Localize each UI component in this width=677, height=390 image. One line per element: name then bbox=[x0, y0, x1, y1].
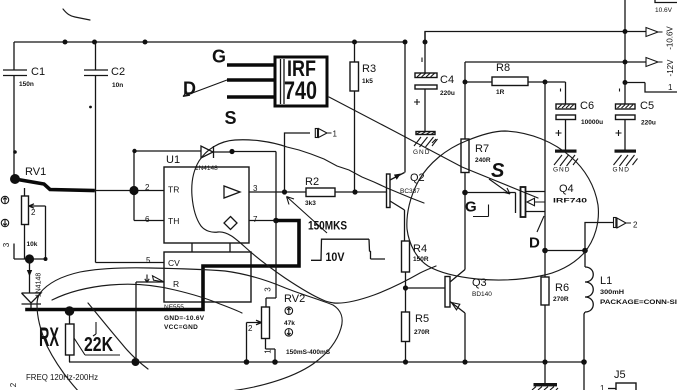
node dot on rail bbox=[63, 40, 68, 45]
svg-text:150MKS: 150MKS bbox=[308, 219, 347, 233]
resistor R6 bbox=[541, 251, 569, 363]
svg-text:C6: C6 bbox=[580, 100, 594, 112]
svg-text:10n: 10n bbox=[112, 82, 123, 89]
svg-text:TH: TH bbox=[168, 216, 179, 226]
ground bottom center bbox=[532, 362, 558, 390]
svg-text:1: 1 bbox=[600, 384, 605, 390]
node dot gate net bbox=[462, 190, 468, 196]
svg-text:G: G bbox=[212, 47, 226, 67]
voltage box 10.6V top corner bbox=[655, 0, 677, 14]
svg-text:R5: R5 bbox=[415, 313, 429, 325]
svg-text:2: 2 bbox=[9, 382, 18, 387]
node dot R8 right (S net) bbox=[543, 80, 548, 85]
adjust circle down RV2 bbox=[285, 329, 293, 337]
capacitor C4 bbox=[414, 32, 455, 132]
resistor RX (hand drawn) bbox=[66, 315, 75, 362]
connector J5 bbox=[600, 369, 636, 390]
svg-text:FREQ 120Hz-200Hz: FREQ 120Hz-200Hz bbox=[26, 373, 98, 382]
svg-text:6: 6 bbox=[145, 215, 150, 224]
node dot RV1 top bbox=[10, 174, 20, 184]
svg-text:R8: R8 bbox=[496, 62, 510, 74]
wire Q2 emitter riser bbox=[404, 42, 406, 173]
svg-text:3: 3 bbox=[2, 242, 11, 247]
potentiometer RV1 bbox=[2, 166, 46, 259]
capacitor C5 bbox=[616, 83, 656, 150]
wire pin4 reset bbox=[136, 282, 164, 362]
svg-text:S: S bbox=[225, 108, 237, 128]
svg-text:1: 1 bbox=[668, 83, 673, 92]
annotation inner arc bbox=[52, 284, 242, 313]
inductor L1 bbox=[584, 251, 677, 363]
wire S net trunk to Q4 source bbox=[544, 82, 546, 192]
svg-text:GND: GND bbox=[613, 167, 630, 174]
svg-text:L1: L1 bbox=[600, 275, 612, 287]
annotation D label bbox=[529, 216, 544, 252]
stray dot bbox=[89, 106, 92, 109]
svg-text:10.6V: 10.6V bbox=[655, 7, 673, 14]
svg-text:BD140: BD140 bbox=[472, 291, 492, 298]
arrow to D lead bbox=[183, 80, 227, 97]
svg-text:1k5: 1k5 bbox=[362, 78, 373, 85]
IRF740 package box bbox=[275, 56, 327, 106]
node dot on rail bbox=[143, 40, 148, 45]
resistor R5 bbox=[402, 288, 430, 362]
svg-text:CV: CV bbox=[168, 258, 180, 268]
svg-text:47k: 47k bbox=[284, 320, 295, 327]
svg-text:2: 2 bbox=[31, 208, 36, 217]
svg-text:10k: 10k bbox=[27, 241, 38, 248]
wire top-right riser bbox=[624, 0, 626, 83]
node dot Q2/rail bbox=[403, 40, 408, 45]
annotation loop around U1 bbox=[192, 140, 424, 303]
diode D2 1N4148 bbox=[22, 259, 43, 308]
transistor Q2 BC337 bbox=[387, 172, 425, 241]
node dot R2/R3 bbox=[352, 189, 357, 194]
svg-text:-12V: -12V bbox=[666, 59, 675, 77]
wire L1 to bottom edge bbox=[583, 362, 585, 390]
resistor R3 bbox=[350, 42, 376, 192]
node dot C2/rail bbox=[92, 40, 97, 45]
wire jog to edge port 1 bbox=[625, 83, 677, 93]
svg-text:Q4: Q4 bbox=[559, 183, 574, 195]
wire to port 2 bbox=[585, 223, 614, 251]
svg-text:VCC=GND: VCC=GND bbox=[164, 324, 198, 331]
svg-text:C4: C4 bbox=[440, 74, 454, 86]
annotation pointer to 22K bbox=[74, 338, 120, 355]
IRF740 package leads bbox=[227, 65, 276, 97]
svg-text:J5: J5 bbox=[614, 369, 626, 381]
capacitor C6 bbox=[556, 89, 604, 150]
pin4 arrow glyph bbox=[145, 275, 149, 283]
node dot L1 top bbox=[582, 248, 588, 254]
node dot Q3/rail bbox=[462, 359, 467, 364]
wire pin5 CV label bbox=[0, 0, 1, 1]
node dot RV2 pin1/rail bbox=[272, 359, 278, 365]
node dot R3/rail bbox=[352, 40, 357, 45]
annotation inner arc 2 bbox=[88, 303, 148, 369]
svg-text:2: 2 bbox=[633, 221, 638, 230]
adjust circle up RV2 bbox=[285, 307, 293, 315]
annotation blob around RX bbox=[37, 268, 342, 390]
node dot RV1 bottom bbox=[25, 254, 34, 263]
svg-text:RV2: RV2 bbox=[284, 293, 305, 305]
svg-text:1N4148: 1N4148 bbox=[195, 165, 218, 172]
node dot drain bbox=[542, 248, 548, 254]
node dot pin4/rail bbox=[132, 358, 140, 366]
node dot riser/-10.6V rail bbox=[623, 29, 628, 34]
wire TR node to diode D1 bbox=[134, 151, 201, 191]
wire to port 1 bbox=[285, 133, 311, 192]
node TR junction bbox=[129, 186, 138, 195]
svg-text:240R: 240R bbox=[475, 157, 491, 164]
wire corner to -10.6V rail bbox=[425, 32, 646, 43]
potentiometer RV2 bbox=[247, 221, 331, 363]
adjust circle up RV1 bbox=[1, 196, 8, 203]
svg-text:PACKAGE=CONN-SI: PACKAGE=CONN-SI bbox=[600, 299, 677, 306]
svg-text:150n: 150n bbox=[19, 81, 34, 88]
ground under C5 bbox=[613, 150, 638, 174]
wire bottom rail bbox=[69, 361, 585, 363]
thick wire pin7 gnd trace bbox=[27, 221, 299, 310]
diode D1 1N4148 bbox=[195, 146, 218, 172]
node dot C4/rail bbox=[423, 40, 428, 45]
svg-text:C1: C1 bbox=[31, 66, 45, 78]
svg-text:2: 2 bbox=[248, 324, 253, 333]
svg-text:C5: C5 bbox=[640, 100, 654, 112]
annotation line package to Q4 bbox=[329, 97, 538, 198]
svg-text:U1: U1 bbox=[166, 154, 180, 166]
wire to C6 bbox=[545, 82, 566, 104]
node dot riser/-12V rail bbox=[623, 60, 628, 65]
wire pin3 out bbox=[249, 191, 387, 193]
annotation G label bbox=[465, 199, 489, 217]
wire D1 cathode to pin 7 bbox=[214, 152, 277, 221]
svg-text:D: D bbox=[529, 235, 540, 252]
port -12V bbox=[646, 58, 675, 77]
stray dot on C1 wire bbox=[13, 150, 17, 154]
annotation S arrow bbox=[489, 179, 510, 194]
svg-text:270R: 270R bbox=[414, 329, 430, 336]
wire drain to L1 bbox=[545, 250, 585, 252]
svg-text:22K: 22K bbox=[84, 334, 113, 356]
port -10.6V bbox=[646, 26, 675, 50]
svg-text:GND: GND bbox=[413, 149, 430, 156]
pin4 flag bbox=[153, 276, 165, 282]
svg-text:RV1: RV1 bbox=[25, 166, 46, 178]
wire -12V rail bbox=[465, 62, 646, 82]
svg-text:BC337: BC337 bbox=[400, 188, 420, 195]
node dot on D1 wire bbox=[229, 149, 234, 154]
ground under C4 bbox=[413, 132, 438, 157]
resistor R4 bbox=[402, 241, 429, 288]
wire Q3 base bbox=[406, 287, 446, 289]
thick wire RV1 trace bbox=[15, 179, 93, 191]
annotation arrow 150MKS bbox=[287, 197, 328, 234]
svg-text:R7: R7 bbox=[475, 143, 489, 155]
svg-text:1: 1 bbox=[333, 130, 338, 139]
node corner dot bbox=[132, 149, 136, 153]
node dot R4/Q3 base bbox=[403, 285, 408, 290]
wire top rail (0V net) bbox=[14, 41, 405, 43]
svg-text:GND=-10.6V: GND=-10.6V bbox=[164, 315, 205, 322]
annotation tail blob to loop bbox=[334, 266, 436, 303]
svg-text:270R: 270R bbox=[553, 296, 569, 303]
svg-text:3: 3 bbox=[264, 287, 273, 292]
svg-text:S: S bbox=[491, 160, 505, 182]
svg-text:7: 7 bbox=[253, 215, 258, 224]
wire CV net to U1 pin5 bbox=[96, 262, 165, 264]
svg-text:1: 1 bbox=[264, 349, 273, 354]
node dot riser/C5 bbox=[623, 80, 628, 85]
node dot R5/rail bbox=[403, 359, 408, 364]
svg-text:300mH: 300mH bbox=[600, 289, 624, 296]
svg-text:220u: 220u bbox=[641, 120, 656, 127]
svg-text:GND: GND bbox=[553, 167, 570, 174]
svg-text:740: 740 bbox=[284, 77, 317, 105]
resistor R2 bbox=[305, 176, 335, 207]
node dot pin7 bbox=[273, 218, 279, 224]
op-amp U1 555 timer body bbox=[164, 154, 251, 311]
svg-text:R3: R3 bbox=[362, 63, 376, 75]
svg-text:3k3: 3k3 bbox=[305, 200, 316, 207]
svg-text:TR: TR bbox=[168, 185, 179, 195]
svg-text:C2: C2 bbox=[111, 66, 125, 78]
capacitor C2 bbox=[84, 42, 125, 263]
svg-text:220u: 220u bbox=[440, 90, 455, 97]
svg-text:RX: RX bbox=[39, 322, 59, 352]
resistor R8 bbox=[465, 62, 545, 96]
node dot R6/rail bbox=[542, 359, 547, 364]
svg-text:5: 5 bbox=[146, 256, 151, 265]
annotation loop around Q2 Q4 bbox=[407, 131, 599, 280]
node dot pin3/port bbox=[282, 189, 287, 194]
node dot RX tap bbox=[65, 306, 75, 316]
svg-text:R2: R2 bbox=[305, 176, 319, 188]
node dot L1/rail bbox=[581, 359, 587, 365]
node dot wiper bbox=[44, 257, 48, 261]
annotation squiggle bbox=[63, 9, 90, 20]
wire TR/TH tie bbox=[93, 191, 164, 221]
transistor Q3 BD140 bbox=[445, 270, 492, 363]
node dot R8 left bbox=[463, 80, 468, 85]
port 1 (pin3 out) bbox=[315, 129, 337, 139]
svg-text:10000u: 10000u bbox=[581, 119, 603, 126]
ground under C6 bbox=[553, 150, 578, 174]
svg-text:IRF740: IRF740 bbox=[553, 198, 588, 205]
wire gate to Q4 bbox=[465, 193, 516, 214]
svg-text:1R: 1R bbox=[496, 89, 505, 96]
node dot RV2 wiper/rail bbox=[244, 359, 250, 365]
svg-text:R6: R6 bbox=[555, 282, 569, 294]
svg-text:10V: 10V bbox=[326, 250, 345, 264]
port 2 bbox=[614, 218, 639, 230]
annotation tick above 22K bbox=[93, 322, 96, 336]
capacitor C1 bbox=[3, 42, 45, 179]
svg-text:G: G bbox=[465, 199, 477, 216]
waveform pulse bbox=[311, 239, 385, 260]
transistor Q4 IRF740 bbox=[521, 183, 588, 251]
svg-text:-10.6V: -10.6V bbox=[666, 26, 675, 50]
resistor R7 bbox=[461, 82, 491, 270]
svg-text:R: R bbox=[173, 279, 179, 289]
adjust circle down RV1 bbox=[1, 219, 8, 226]
